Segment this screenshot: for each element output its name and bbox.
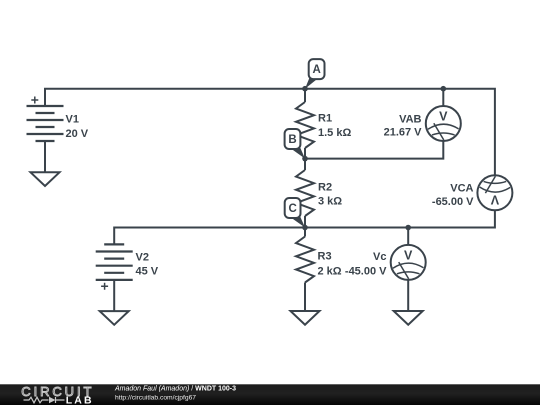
svg-text:A: A [312, 64, 320, 76]
svg-text:V: V [439, 110, 448, 124]
svg-text:R1: R1 [318, 113, 332, 125]
svg-text:V1: V1 [66, 113, 79, 125]
svg-text:2 kΩ: 2 kΩ [318, 266, 342, 278]
svg-text:45 V: 45 V [136, 266, 159, 278]
svg-text:VAB: VAB [399, 113, 421, 125]
svg-text:20 V: 20 V [66, 128, 89, 140]
svg-text:R2: R2 [318, 182, 332, 194]
svg-text:V2: V2 [136, 252, 149, 264]
svg-text:1.5 kΩ: 1.5 kΩ [318, 127, 351, 139]
svg-text:V: V [491, 193, 500, 207]
svg-text:-65.00 V: -65.00 V [432, 196, 474, 208]
svg-text:C: C [288, 203, 296, 215]
svg-text:V: V [404, 249, 413, 263]
svg-text:B: B [288, 134, 296, 146]
svg-text:Vc: Vc [373, 251, 386, 263]
svg-text:LAB: LAB [66, 395, 94, 405]
svg-text:VCA: VCA [450, 182, 473, 194]
svg-text:21.67 V: 21.67 V [384, 127, 423, 139]
svg-text:http://circuitlab.com/cjpfg67: http://circuitlab.com/cjpfg67 [115, 394, 196, 401]
svg-text:3 kΩ: 3 kΩ [318, 196, 342, 208]
svg-text:R3: R3 [318, 251, 332, 263]
svg-text:-45.00 V: -45.00 V [345, 266, 387, 278]
svg-text:Amadon Faul (Amadon) / WNDT 10: Amadon Faul (Amadon) / WNDT 100-3 [114, 386, 236, 393]
